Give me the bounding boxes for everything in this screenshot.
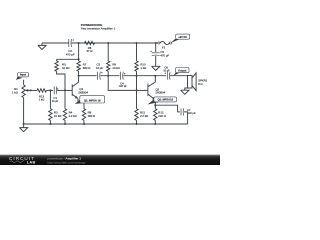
resistor R6 [85, 41, 95, 44]
node [136, 42, 138, 44]
wire [57, 89, 72, 91]
svg-text:10 kΩ: 10 kΩ [54, 114, 61, 118]
svg-text:Output: Output [178, 69, 186, 72]
node [30, 89, 32, 91]
svg-text:.047 µF: .047 µF [119, 85, 128, 88]
capacitor C5 [152, 52, 160, 54]
Input flag [16, 77, 22, 80]
capacitor C4 [120, 72, 122, 80]
fuse F1 [158, 42, 160, 44]
resistor R9 [107, 43, 109, 61]
svg-text:10 kΩ: 10 kΩ [112, 66, 119, 70]
resistor R3 [49, 90, 51, 108]
transistor Q2 [147, 84, 149, 96]
svg-text:1 kΩ: 1 kΩ [39, 98, 45, 102]
svg-text:180 Ω: 180 Ω [88, 114, 96, 118]
node [136, 75, 138, 77]
node [107, 75, 109, 77]
node [154, 104, 156, 106]
svg-text:100 µF: 100 µF [187, 111, 196, 115]
node [136, 123, 138, 125]
node [136, 89, 138, 91]
wire [170, 75, 187, 77]
ground G2 [19, 128, 27, 132]
svg-text:Q2: MPSA18: Q2: MPSA18 [157, 98, 173, 102]
svg-text:Input: Input [20, 74, 26, 77]
wire [155, 43, 157, 52]
ground G3 [152, 66, 160, 70]
svg-text:470 µF: 470 µF [66, 53, 75, 57]
svg-text:220 Ω: 220 Ω [158, 114, 166, 118]
potentiometer R1 [23, 80, 25, 85]
resistor R10 [136, 43, 138, 61]
svg-text:2.2 kΩ: 2.2 kΩ [69, 114, 77, 118]
svg-text:F1: F1 [162, 46, 166, 50]
transistor Q1 [71, 84, 73, 96]
ground G1 [38, 45, 46, 49]
svg-text:1 kΩ: 1 kΩ [12, 91, 18, 95]
node [49, 123, 51, 125]
node [64, 89, 66, 91]
svg-text:2.2 kΩ: 2.2 kΩ [140, 114, 148, 118]
svg-text:10 µF: 10 µF [163, 70, 170, 73]
wire top rail [72, 42, 158, 44]
wire [101, 75, 120, 77]
capacitor C2 [68, 39, 70, 47]
svg-text:1 kΩ: 1 kΩ [140, 66, 146, 70]
wire [184, 112, 188, 124]
svg-text:LAB: LAB [27, 159, 36, 164]
wire J1 drop [57, 43, 79, 59]
wire [155, 56, 157, 66]
resistor R12 [154, 105, 156, 108]
node [23, 123, 25, 125]
ground G4 [181, 90, 189, 94]
capacitor C6 [166, 72, 168, 80]
node [83, 123, 85, 125]
svg-text:10 µF: 10 µF [52, 100, 59, 103]
wire top rail left [42, 42, 69, 44]
wire [123, 75, 166, 77]
svg-text:47 Ω: 47 Ω [87, 49, 93, 53]
Q2 callout [148, 99, 159, 105]
wire column [136, 76, 138, 109]
Q1 callout [75, 99, 85, 104]
Output flag [173, 73, 179, 76]
bottom rail [24, 123, 188, 125]
node [154, 75, 156, 77]
wire [185, 88, 188, 90]
wire base drop [108, 76, 136, 91]
capacitor C1 [53, 86, 55, 94]
svg-text:10 kΩ: 10 kΩ [62, 66, 69, 70]
node [78, 58, 80, 60]
node [64, 123, 66, 125]
svg-text:10 µF: 10 µF [96, 66, 103, 70]
node [107, 42, 109, 44]
resistor R5 [56, 59, 58, 61]
svg-text:Two transistor Amplifier 1: Two transistor Amplifier 1 [81, 27, 116, 31]
node [49, 89, 51, 91]
svg-text:2N3904: 2N3904 [78, 90, 88, 94]
svg-text:470 µF: 470 µF [160, 54, 169, 58]
svg-text:680 Ω: 680 Ω [83, 66, 91, 70]
resistor R8 [82, 109, 85, 121]
capacitor C7 [180, 108, 182, 115]
svg-text:Q1: MPSA 18: Q1: MPSA 18 [84, 99, 101, 103]
+9V DC flag [171, 39, 180, 43]
resistor R11 [135, 109, 138, 121]
wire base [137, 89, 148, 91]
wire [155, 105, 180, 112]
node [78, 42, 80, 44]
node [78, 75, 80, 77]
wire [79, 75, 97, 77]
capacitor C3 [97, 72, 99, 80]
resistor R7 [78, 59, 80, 61]
node [154, 123, 156, 125]
node [155, 42, 157, 44]
svg-text:2N3904: 2N3904 [155, 90, 165, 94]
svg-text:+9V DC: +9V DC [178, 36, 187, 39]
svg-text:8 Ω: 8 Ω [198, 82, 202, 86]
speaker SPKR1 [188, 75, 193, 88]
svg-text:http://circuitlab.com/csxwuqy: http://circuitlab.com/csxwuqy [47, 160, 86, 164]
resistor R4 [64, 90, 66, 108]
resistor R2 [37, 89, 46, 92]
